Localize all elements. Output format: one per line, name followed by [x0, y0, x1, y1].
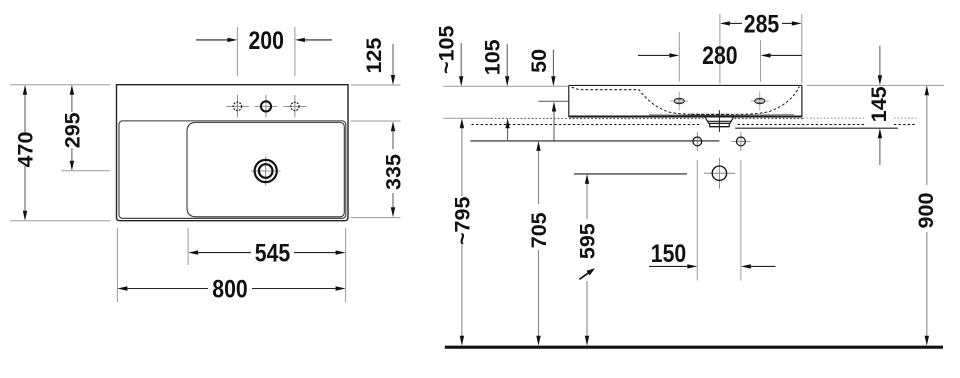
svg-text:~795: ~795: [451, 197, 475, 245]
svg-text:280: 280: [702, 41, 737, 69]
hidden deck edge + basin interior curve (dashed): [572, 87, 800, 115]
svg-text:705: 705: [527, 212, 551, 248]
dim 200 extension lines: [237, 27, 295, 76]
svg-text:125: 125: [362, 38, 386, 74]
washbasin deck rim (plan): [119, 121, 346, 218]
washbasin outer rim (plan): [117, 85, 349, 221]
dim 280: [638, 54, 669, 56]
basin profile right edge: [801, 85, 803, 116]
drain trap: [705, 117, 733, 126]
svg-text:105: 105: [480, 39, 504, 75]
lower mount hole right: [737, 137, 746, 146]
basin profile left edge: [568, 85, 570, 116]
basin inner bottom line: [649, 114, 794, 116]
dim 125: [392, 44, 394, 75]
faucet hole right (dashed): [291, 102, 299, 110]
svg-text:800: 800: [212, 275, 247, 303]
dim 200: [196, 39, 228, 41]
upper bolt hole right: [755, 98, 765, 103]
wall/top extension line left: [443, 85, 568, 87]
svg-text:595: 595: [576, 223, 600, 259]
faucet hole crosshairs: [226, 95, 307, 118]
faucet hole center: [261, 101, 271, 111]
underside solid line left: [470, 140, 719, 142]
svg-text:145: 145: [867, 86, 891, 122]
dim 595: [585, 174, 589, 184]
svg-text:200: 200: [248, 26, 283, 54]
dim 470: [24, 95, 26, 133]
upper bolt hole crosshairs: [670, 92, 769, 111]
dim 335: [392, 131, 394, 149]
hidden rail dashed line: [472, 124, 701, 126]
dim 150: [649, 265, 687, 267]
centerline: [718, 110, 720, 132]
145-level solid line right: [735, 127, 898, 129]
595-level syphon line: [574, 173, 687, 175]
drain crosshair: [251, 157, 281, 186]
upper bolt hole left: [674, 98, 684, 103]
dim 295: [71, 95, 73, 112]
dim 800: [127, 288, 208, 290]
dim 150 extension lines: [696, 160, 698, 281]
svg-text:285: 285: [744, 10, 780, 38]
svg-text:900: 900: [914, 193, 938, 229]
lower mount hole crosshairs: [688, 132, 751, 151]
svg-text:335: 335: [382, 154, 406, 190]
underside extension line (solid gray): [443, 117, 491, 119]
dim 545: [198, 252, 251, 254]
faucet hole left (dashed): [233, 102, 241, 110]
svg-text:470: 470: [14, 132, 38, 168]
plan left extension lines: [10, 85, 111, 221]
plan bottom extension lines: [117, 228, 345, 302]
syphon hole crosshair: [704, 158, 735, 189]
drain outer circle: [255, 160, 277, 182]
dim 145: [879, 46, 881, 75]
50-level short line: [538, 100, 568, 102]
dim 285 extension lines: [719, 14, 721, 84]
syphon hole: [712, 166, 726, 180]
svg-text:150: 150: [651, 239, 686, 267]
svg-text:295: 295: [61, 112, 85, 148]
top extension line right: [807, 84, 944, 86]
drain recess hidden dashes: [691, 113, 730, 115]
plan right extension lines: [351, 85, 401, 218]
dim 280 extension lines: [678, 32, 680, 82]
lower mount hole left: [693, 137, 702, 146]
595 oblique arrow: [580, 273, 589, 280]
basin profile bottom edge (thick): [569, 115, 802, 117]
svg-text:50: 50: [527, 49, 551, 73]
dim 900: [925, 85, 929, 95]
drain inner circle: [259, 164, 273, 178]
mounting level dotted line: [491, 117, 569, 119]
dim 705: [536, 141, 540, 151]
floor line: [445, 346, 943, 349]
svg-text:545: 545: [255, 239, 291, 267]
svg-text:~105: ~105: [434, 26, 458, 74]
dim ~795: [460, 118, 464, 128]
basin profile top edge: [569, 84, 802, 86]
dim 285: [730, 22, 742, 24]
basin bowl (plan): [187, 122, 344, 216]
